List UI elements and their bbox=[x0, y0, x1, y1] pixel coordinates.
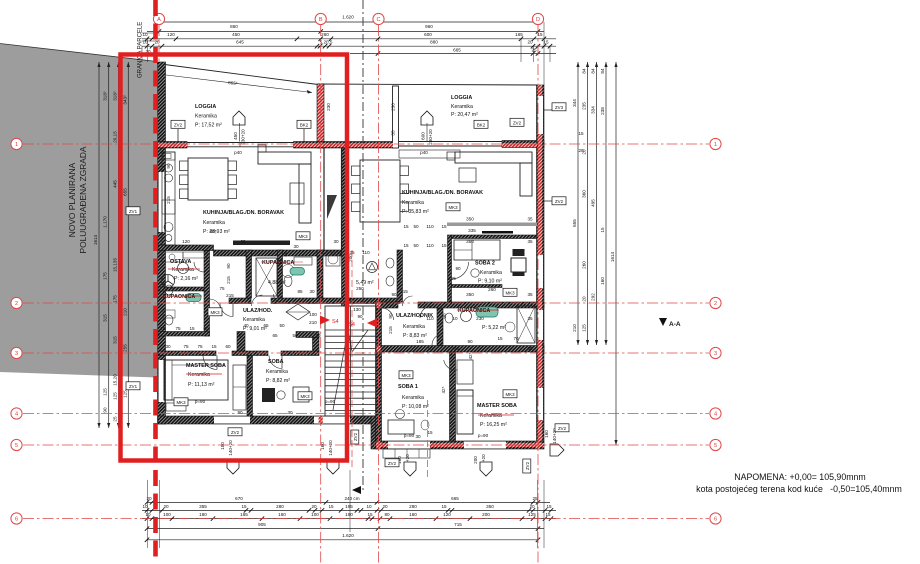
svg-text:100: 100 bbox=[309, 312, 317, 317]
svg-text:Keramika: Keramika bbox=[203, 220, 225, 226]
svg-text:90: 90 bbox=[442, 313, 447, 319]
right vertical dimension lines bbox=[577, 62, 579, 345]
svg-text:ZV1: ZV1 bbox=[129, 209, 138, 214]
svg-text:238: 238 bbox=[600, 107, 605, 115]
svg-text:6: 6 bbox=[15, 517, 18, 523]
svg-text:880: 880 bbox=[430, 40, 438, 45]
svg-text:60: 60 bbox=[283, 251, 288, 257]
svg-text:KUHINJA/BLAG./DN. BORAVAK: KUHINJA/BLAG./DN. BORAVAK bbox=[402, 190, 483, 196]
dining table left bbox=[188, 158, 228, 200]
svg-text:15: 15 bbox=[497, 336, 503, 341]
svg-text:35: 35 bbox=[391, 130, 396, 136]
svg-text:90: 90 bbox=[467, 339, 473, 344]
svg-text:318⁵: 318⁵ bbox=[113, 91, 118, 101]
svg-text:20: 20 bbox=[578, 148, 584, 153]
wall bathroom mid wall bbox=[278, 250, 283, 298]
bottom dimension line 905 715 bbox=[147, 528, 544, 530]
wardrobe master left bbox=[233, 365, 246, 410]
svg-text:20: 20 bbox=[382, 504, 388, 509]
parcel boundary granica (thick red dashed) bbox=[153, 0, 158, 564]
svg-text:670: 670 bbox=[235, 496, 243, 501]
svg-text:215: 215 bbox=[448, 276, 456, 281]
grid line column D bbox=[537, 25, 539, 564]
svg-text:p=90: p=90 bbox=[478, 433, 489, 438]
wall master bedroom top wall bbox=[158, 351, 216, 356]
slanted dimension 665 inside loggia bbox=[158, 74, 312, 93]
kitchen right along window bbox=[399, 150, 460, 158]
svg-text:MK3: MK3 bbox=[176, 400, 186, 405]
bottom dimension line 1.620 bbox=[147, 539, 538, 541]
svg-text:ZV2: ZV2 bbox=[353, 432, 358, 441]
storage room fixtures bbox=[183, 252, 207, 258]
grid line column B bbox=[320, 25, 322, 564]
svg-text:905: 905 bbox=[258, 522, 266, 527]
svg-text:P: 8,82 m²: P: 8,82 m² bbox=[266, 378, 290, 384]
svg-text:2: 2 bbox=[15, 301, 18, 307]
svg-text:LOGGIA: LOGGIA bbox=[195, 104, 216, 110]
boiler closet bbox=[326, 252, 340, 266]
svg-text:165: 165 bbox=[240, 512, 248, 517]
svg-text:15: 15 bbox=[545, 512, 551, 517]
wall living/storage wall bbox=[158, 245, 214, 251]
svg-text:25: 25 bbox=[113, 416, 118, 422]
svg-text:15: 15 bbox=[328, 504, 334, 509]
wall stair bottom wall bbox=[346, 416, 377, 424]
wall loggia sliding door top bbox=[187, 142, 294, 144]
svg-text:40: 40 bbox=[243, 323, 249, 328]
svg-text:160: 160 bbox=[600, 277, 605, 285]
svg-text:130: 130 bbox=[353, 307, 361, 312]
vent diamond bbox=[286, 304, 310, 320]
tv cabinet dark bar bbox=[233, 241, 290, 246]
svg-text:260: 260 bbox=[321, 32, 329, 37]
wall bathroom band top wall bbox=[214, 250, 342, 256]
wall left exterior bbox=[158, 62, 166, 424]
svg-text:Keramika: Keramika bbox=[188, 372, 210, 378]
svg-text:210: 210 bbox=[572, 324, 577, 332]
svg-text:84: 84 bbox=[591, 68, 596, 74]
wall right exterior bbox=[537, 85, 545, 441]
wall bathroom bottom wall a bbox=[229, 298, 251, 304]
svg-text:120: 120 bbox=[443, 512, 451, 517]
svg-text:230+20: 230+20 bbox=[428, 129, 433, 145]
svg-text:210: 210 bbox=[122, 308, 127, 316]
svg-text:1.620: 1.620 bbox=[342, 533, 354, 538]
svg-text:20: 20 bbox=[529, 504, 535, 509]
svg-text:84: 84 bbox=[582, 68, 587, 74]
svg-text:1614: 1614 bbox=[93, 234, 98, 245]
svg-text:450: 450 bbox=[233, 132, 238, 140]
wall hall pier c bbox=[313, 338, 320, 352]
top dimension line 10 120 450 260 600 165 15 bbox=[142, 38, 556, 40]
svg-text:90: 90 bbox=[391, 292, 397, 297]
svg-text:655: 655 bbox=[122, 188, 127, 196]
wall middle band wall bbox=[324, 142, 393, 149]
svg-text:160: 160 bbox=[278, 512, 286, 517]
svg-text:140+20: 140+20 bbox=[328, 440, 333, 456]
svg-text:75: 75 bbox=[183, 344, 189, 349]
svg-text:MK3: MK3 bbox=[505, 291, 515, 296]
kitchen counter bar right bbox=[447, 223, 537, 227]
svg-text:10: 10 bbox=[366, 504, 372, 509]
svg-text:1614: 1614 bbox=[610, 251, 615, 262]
svg-text:ZV2: ZV2 bbox=[513, 121, 522, 126]
svg-text:10: 10 bbox=[142, 504, 148, 509]
wall right loggia left pier (double line) bbox=[393, 86, 399, 148]
svg-text:ZV2: ZV2 bbox=[174, 123, 183, 128]
section marker A-A right bbox=[659, 318, 667, 326]
svg-text:90: 90 bbox=[226, 263, 231, 269]
svg-text:165: 165 bbox=[515, 32, 523, 37]
right WC fixtures bbox=[386, 258, 394, 268]
svg-text:P: 5,22 m²: P: 5,22 m² bbox=[482, 325, 506, 331]
svg-text:40: 40 bbox=[237, 333, 243, 338]
svg-text:P: 10,08 m²: P: 10,08 m² bbox=[402, 404, 429, 410]
wall right apartment bottom wall bbox=[376, 441, 544, 449]
svg-text:125: 125 bbox=[582, 324, 587, 332]
svg-text:42⁵: 42⁵ bbox=[468, 352, 473, 359]
svg-text:292: 292 bbox=[591, 293, 596, 301]
svg-text:350: 350 bbox=[466, 217, 474, 222]
svg-text:MK3: MK3 bbox=[300, 394, 310, 399]
svg-text:30: 30 bbox=[293, 244, 299, 249]
wall soba2 bottom wall bbox=[452, 285, 503, 288]
svg-text:60: 60 bbox=[203, 326, 209, 331]
svg-text:90: 90 bbox=[166, 163, 171, 169]
dining table right bbox=[360, 160, 400, 222]
svg-text:85: 85 bbox=[297, 289, 303, 294]
svg-text:4,88 m²: 4,88 m² bbox=[268, 280, 286, 286]
svg-text:2: 2 bbox=[714, 301, 717, 307]
svg-text:230: 230 bbox=[451, 346, 459, 351]
svg-text:230: 230 bbox=[476, 316, 484, 321]
entry steps below bbox=[383, 449, 430, 458]
wall left bathroom bottom wall bbox=[158, 332, 210, 337]
wall storage bottom wall bbox=[158, 287, 204, 291]
svg-text:655: 655 bbox=[572, 219, 577, 227]
grid line row 5 bbox=[23, 444, 709, 446]
top dimension line 1.620 bbox=[159, 21, 538, 23]
top dimension line 10 20 645 5 20 5 880 20 15 bbox=[142, 45, 556, 47]
sofa left bbox=[258, 152, 311, 164]
svg-text:KUPAONICA: KUPAONICA bbox=[163, 294, 195, 300]
svg-text:10: 10 bbox=[452, 316, 458, 321]
wall bathroom left wall bbox=[246, 250, 252, 298]
window pentagons bbox=[233, 111, 245, 125]
wall stair step wall bbox=[371, 416, 377, 449]
svg-text:S4: S4 bbox=[332, 319, 339, 325]
svg-text:90: 90 bbox=[388, 313, 393, 319]
svg-text:160: 160 bbox=[409, 512, 417, 517]
svg-text:p=90: p=90 bbox=[325, 399, 336, 404]
red checker strips where grid lines cross walls bbox=[158, 143, 187, 147]
svg-text:110: 110 bbox=[426, 316, 434, 321]
leader lines for ZV boxes right bbox=[544, 109, 552, 111]
svg-text:MASTER SOBA: MASTER SOBA bbox=[186, 363, 226, 369]
svg-text:Keramika: Keramika bbox=[195, 114, 217, 120]
svg-text:665: 665 bbox=[451, 496, 459, 501]
soba2 desk and chair (dark) bbox=[513, 249, 525, 256]
svg-text:35: 35 bbox=[527, 292, 533, 297]
svg-text:30: 30 bbox=[165, 344, 171, 349]
grid line column A bbox=[158, 25, 160, 62]
svg-text:235: 235 bbox=[582, 102, 587, 110]
svg-text:20: 20 bbox=[527, 40, 533, 45]
svg-text:BK2: BK2 bbox=[300, 123, 309, 128]
svg-text:318⁵: 318⁵ bbox=[103, 91, 108, 101]
svg-text:80: 80 bbox=[384, 512, 390, 517]
svg-text:ZV2: ZV2 bbox=[555, 199, 564, 204]
svg-text:350: 350 bbox=[486, 504, 494, 509]
svg-text:15: 15 bbox=[600, 227, 605, 233]
svg-text:30: 30 bbox=[333, 239, 339, 244]
svg-text:50: 50 bbox=[413, 224, 419, 229]
svg-text:125: 125 bbox=[122, 390, 127, 398]
bed master right bbox=[457, 390, 473, 434]
wall bathroom bottom wall b bbox=[271, 298, 400, 304]
svg-text:15: 15 bbox=[546, 504, 552, 509]
svg-text:110: 110 bbox=[362, 250, 370, 255]
svg-text:Keramika: Keramika bbox=[451, 104, 473, 110]
svg-text:OSTAVA: OSTAVA bbox=[170, 259, 191, 265]
svg-text:6: 6 bbox=[714, 517, 717, 523]
svg-text:215: 215 bbox=[226, 293, 234, 298]
svg-text:4: 4 bbox=[15, 412, 18, 418]
svg-text:p=90: p=90 bbox=[195, 399, 206, 404]
svg-text:344: 344 bbox=[572, 99, 577, 107]
left vertical dimension lines bbox=[98, 62, 100, 428]
svg-text:110: 110 bbox=[426, 224, 434, 229]
bed master left bbox=[164, 360, 228, 400]
svg-text:175: 175 bbox=[113, 295, 118, 303]
stair axis red dashed line bbox=[351, 250, 353, 470]
svg-text:P: 9,10 m²: P: 9,10 m² bbox=[478, 279, 502, 285]
svg-text:P: 2,16 m²: P: 2,16 m² bbox=[174, 276, 198, 282]
svg-text:P: 16,25 m²: P: 16,25 m² bbox=[480, 422, 507, 428]
svg-text:SOBA 1: SOBA 1 bbox=[398, 384, 418, 390]
svg-text:665: 665 bbox=[453, 48, 461, 53]
svg-text:KUHINJA/BLAG./DN. BORAVAK: KUHINJA/BLAG./DN. BORAVAK bbox=[203, 210, 284, 216]
grid line row 4 bbox=[23, 413, 709, 415]
svg-text:Keramika: Keramika bbox=[402, 200, 424, 206]
svg-text:15,20: 15,20 bbox=[113, 374, 118, 386]
svg-text:SOBA: SOBA bbox=[268, 359, 284, 365]
svg-text:30: 30 bbox=[309, 289, 315, 294]
svg-text:495: 495 bbox=[591, 199, 596, 207]
svg-text:P: 35,83 m²: P: 35,83 m² bbox=[402, 209, 429, 215]
svg-text:75: 75 bbox=[197, 344, 203, 349]
svg-text:175: 175 bbox=[103, 272, 108, 280]
svg-text:ZV2: ZV2 bbox=[231, 430, 240, 435]
desk small room bbox=[262, 388, 275, 402]
svg-text:42⁵: 42⁵ bbox=[441, 386, 446, 393]
svg-text:35: 35 bbox=[527, 316, 533, 321]
svg-text:ZV3: ZV3 bbox=[555, 105, 564, 110]
svg-text:75: 75 bbox=[219, 286, 225, 291]
svg-text:255: 255 bbox=[122, 344, 127, 352]
svg-text:20,15: 20,15 bbox=[113, 131, 118, 143]
left bathroom fixtures bbox=[186, 294, 201, 302]
sofa right bbox=[455, 152, 532, 163]
svg-text:kota postojećeg terena kod kuć: kota postojećeg terena kod kuće -0,50=10… bbox=[696, 484, 902, 494]
svg-text:350: 350 bbox=[466, 292, 474, 297]
label NOVO PLANIRANA POLUIZGRADJENA ZGRADA bbox=[67, 146, 88, 253]
svg-text:ZV2: ZV2 bbox=[558, 426, 567, 431]
svg-text:215: 215 bbox=[226, 276, 231, 284]
svg-text:15: 15 bbox=[403, 243, 409, 248]
svg-text:15: 15 bbox=[427, 430, 433, 435]
wall right mid wall bbox=[418, 302, 544, 308]
wall apartments divider upper bbox=[342, 148, 349, 306]
svg-text:450: 450 bbox=[232, 32, 240, 37]
wall hall pier a bbox=[237, 332, 245, 352]
svg-text:200: 200 bbox=[473, 456, 478, 464]
svg-text:600: 600 bbox=[424, 32, 432, 37]
svg-text:315: 315 bbox=[113, 336, 118, 344]
svg-text:600: 600 bbox=[421, 132, 426, 140]
shaft hatch triangles bbox=[327, 195, 337, 219]
svg-text:1.170: 1.170 bbox=[103, 216, 108, 228]
svg-text:715: 715 bbox=[454, 522, 462, 527]
svg-text:90: 90 bbox=[237, 410, 243, 415]
svg-text:30: 30 bbox=[287, 410, 293, 415]
svg-text:C: C bbox=[376, 17, 380, 23]
svg-text:120: 120 bbox=[167, 32, 175, 37]
wall loggia/living wall right segment bbox=[294, 142, 325, 149]
section line A-A vertical bbox=[362, 0, 364, 492]
entry axis red dashed line bbox=[427, 400, 429, 477]
svg-text:10: 10 bbox=[145, 512, 151, 517]
svg-text:D: D bbox=[536, 17, 540, 23]
svg-text:125: 125 bbox=[103, 388, 108, 396]
svg-text:NOVO PLANIRANA: NOVO PLANIRANA bbox=[67, 162, 77, 237]
svg-text:335: 335 bbox=[468, 228, 476, 233]
svg-text:15: 15 bbox=[367, 512, 373, 517]
svg-text:65: 65 bbox=[263, 323, 269, 328]
svg-text:343²: 343² bbox=[122, 95, 127, 105]
main bathroom shower bbox=[256, 258, 277, 296]
svg-text:110: 110 bbox=[426, 243, 434, 248]
wall bathroom right wall bbox=[317, 250, 323, 298]
svg-text:215: 215 bbox=[388, 326, 393, 334]
svg-text:Keramika: Keramika bbox=[172, 267, 194, 273]
svg-text:280: 280 bbox=[276, 504, 284, 509]
label boxes bbox=[171, 120, 185, 128]
svg-text:S4: S4 bbox=[348, 322, 355, 328]
svg-text:4: 4 bbox=[714, 412, 717, 418]
svg-text:ZV2: ZV2 bbox=[525, 461, 530, 470]
svg-text:p=90: p=90 bbox=[404, 433, 415, 438]
wall right bedrooms top wall bbox=[376, 346, 544, 353]
svg-text:230+20: 230+20 bbox=[241, 129, 246, 145]
door swing arcs bbox=[220, 304, 233, 317]
bottom dimension line row3 bbox=[142, 518, 556, 520]
svg-text:200: 200 bbox=[482, 512, 490, 517]
svg-text:15: 15 bbox=[578, 131, 584, 136]
window openings bbox=[158, 172, 165, 232]
svg-text:35: 35 bbox=[527, 346, 533, 351]
svg-text:180: 180 bbox=[199, 512, 207, 517]
svg-text:75: 75 bbox=[175, 326, 181, 331]
svg-text:P: 20,47 m²: P: 20,47 m² bbox=[451, 112, 478, 118]
svg-text:185: 185 bbox=[416, 339, 424, 344]
top dimension line 20 665 25 bbox=[350, 53, 556, 55]
svg-text:215: 215 bbox=[400, 289, 408, 294]
grid line row 1 bbox=[23, 143, 709, 145]
wall bedrooms top wall mid bbox=[232, 351, 268, 356]
svg-text:645: 645 bbox=[236, 40, 244, 45]
svg-text:15: 15 bbox=[403, 224, 409, 229]
svg-text:355: 355 bbox=[199, 504, 207, 509]
svg-text:60: 60 bbox=[240, 239, 246, 244]
svg-text:195: 195 bbox=[345, 504, 353, 509]
svg-text:140+20: 140+20 bbox=[228, 440, 233, 456]
svg-text:1.620: 1.620 bbox=[342, 15, 354, 20]
top-left small dims 10 10 20 bbox=[142, 32, 159, 34]
wall right WC right wall bbox=[397, 250, 403, 302]
top extension lines bbox=[520, 39, 522, 62]
svg-text:ZV2: ZV2 bbox=[388, 461, 397, 466]
svg-text:25: 25 bbox=[531, 48, 537, 53]
svg-text:215: 215 bbox=[166, 196, 171, 204]
svg-text:350: 350 bbox=[466, 239, 474, 244]
svg-text:10: 10 bbox=[427, 346, 433, 351]
svg-text:20: 20 bbox=[163, 504, 169, 509]
svg-text:MK3: MK3 bbox=[298, 234, 308, 239]
svg-text:230: 230 bbox=[391, 103, 396, 111]
svg-text:MK3: MK3 bbox=[505, 392, 515, 397]
wall right loggia bottom pier bbox=[502, 141, 544, 148]
red highlight rectangle bbox=[121, 55, 348, 461]
svg-text:A-A: A-A bbox=[669, 321, 681, 328]
svg-text:5: 5 bbox=[714, 443, 717, 449]
top dimension line 860 / 960 bbox=[147, 31, 544, 33]
wall right mid wall b bbox=[376, 302, 398, 308]
svg-text:190: 190 bbox=[345, 512, 353, 517]
svg-text:ULAZ/HOD.: ULAZ/HOD. bbox=[243, 308, 273, 314]
wall soba2 top wall bbox=[452, 235, 537, 239]
grid line column C bbox=[378, 25, 380, 564]
kitchen counter left bbox=[162, 152, 175, 245]
svg-text:P: 11,13 m²: P: 11,13 m² bbox=[188, 382, 215, 388]
svg-text:334: 334 bbox=[591, 106, 596, 114]
svg-text:B: B bbox=[319, 17, 323, 23]
svg-text:280: 280 bbox=[409, 504, 417, 509]
svg-text:1: 1 bbox=[15, 142, 18, 148]
svg-text:20: 20 bbox=[311, 504, 317, 509]
svg-text:Keramika: Keramika bbox=[403, 324, 425, 330]
svg-text:GRANICA PARCELE: GRANICA PARCELE bbox=[138, 22, 144, 78]
wall hall pier b bbox=[296, 332, 319, 338]
svg-text:SOBA 2: SOBA 2 bbox=[475, 261, 495, 267]
svg-text:BK2: BK2 bbox=[477, 123, 486, 128]
svg-text:p40: p40 bbox=[420, 150, 428, 155]
svg-text:100: 100 bbox=[311, 512, 319, 517]
svg-text:65: 65 bbox=[272, 333, 278, 338]
desk soba1 bbox=[388, 420, 414, 434]
svg-text:ZV1: ZV1 bbox=[129, 384, 138, 389]
wall right bath left wall bbox=[437, 308, 443, 346]
grid line row 3 bbox=[23, 352, 709, 354]
svg-text:30: 30 bbox=[415, 434, 421, 439]
svg-text:Keramika: Keramika bbox=[266, 369, 288, 375]
svg-text:3: 3 bbox=[15, 351, 18, 357]
wall left loggia right pier (red checkered, grid B) bbox=[317, 84, 324, 148]
svg-text:125: 125 bbox=[528, 512, 536, 517]
wall stair/right apartment divider bbox=[376, 302, 382, 441]
svg-text:15: 15 bbox=[241, 504, 247, 509]
bottom dimension line row2 bbox=[142, 509, 556, 511]
